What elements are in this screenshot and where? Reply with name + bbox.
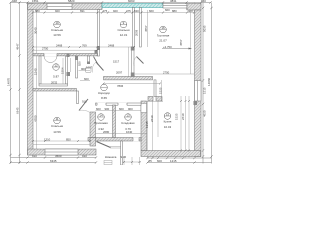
svg-text:13.56: 13.56 [53,130,61,134]
svg-text:85: 85 [149,159,153,163]
svg-text:2750: 2750 [163,70,170,74]
svg-text:5820: 5820 [68,0,75,3]
living room door leaf [137,57,144,64]
kitchen door jamb left [148,97,153,102]
svg-text:475: 475 [103,9,108,13]
svg-text:5.87: 5.87 [53,75,59,79]
svg-text:10: 10 [55,21,59,25]
svg-text:2097: 2097 [116,70,123,74]
right dimension line inner [202,3,204,164]
svg-text:4.92: 4.92 [98,127,104,131]
door arc bedroom1 [44,56,57,63]
top dimension line [11,2,211,4]
svg-text:1517: 1517 [113,60,120,64]
svg-text:5035: 5035 [203,25,207,32]
shaft wall A [133,8,135,48]
room label: entry room text [105,155,127,159]
svg-text:4700: 4700 [34,115,38,122]
bathroom door leaf [96,62,104,71]
svg-text:16: 16 [161,26,165,30]
svg-text:1215: 1215 [170,159,177,163]
svg-text:Коридор: Коридор [98,91,110,95]
bottom dimension line row1 left [11,157,97,159]
svg-text:910: 910 [82,100,87,104]
svg-text:3.76: 3.76 [125,127,131,131]
svg-text:21.07: 21.07 [159,39,167,43]
svg-text:Комната: Комната [105,155,117,159]
svg-text:Спальня: Спальня [51,124,63,128]
svg-text:Спальня: Спальня [51,28,63,32]
svg-text:948: 948 [12,0,17,3]
left dimension line outer [10,3,12,164]
svg-text:1007: 1007 [86,66,93,70]
svg-text:15: 15 [166,113,170,117]
svg-text:2610: 2610 [150,115,154,122]
left line ticks [9,88,11,90]
hall door opening [97,103,106,106]
jamb top [131,47,135,51]
small furniture marks below entry text [104,161,112,165]
room label: wc room12 [53,64,60,79]
corridor-kitchen thin wall [154,80,156,97]
svg-text:4557: 4557 [179,39,183,46]
entry dim ticks [123,161,125,163]
svg-text:900: 900 [105,107,110,111]
corner block SE of bedroom3 [90,138,96,147]
interior dim line ticks [32,46,34,48]
sink fixture [86,68,92,73]
jamb block on wall [97,46,100,50]
svg-text:6063: 6063 [128,0,135,3]
bottom dimension line right row2 [147,162,212,164]
balcony door opening in right wall [195,81,202,102]
bottom outer wall right part [141,151,201,157]
svg-text:6345: 6345 [50,159,57,163]
svg-text:10.43: 10.43 [164,125,172,129]
room12 right wall [66,56,68,84]
svg-text:475: 475 [126,9,131,13]
right outer wall [195,10,202,157]
svg-text:660: 660 [149,9,154,13]
svg-text:1310: 1310 [44,138,51,142]
svg-text:880: 880 [172,9,177,13]
jamb bottom [131,73,135,78]
room interior dim texts [42,8,170,142]
room label: bedroom2 [117,21,138,37]
svg-text:2032: 2032 [51,80,58,84]
svg-text:4557: 4557 [144,25,148,32]
svg-text:14060: 14060 [207,78,211,86]
svg-text:14870: 14870 [7,78,11,86]
svg-text:960: 960 [201,0,206,3]
room label: storage [122,114,135,132]
bottom ticks left [26,156,28,158]
entry door leaf [97,142,111,148]
svg-text:3831: 3831 [170,0,177,3]
svg-text:900: 900 [128,107,133,111]
svg-text:1551: 1551 [32,0,39,3]
svg-text:Прихожая: Прихожая [94,121,108,125]
svg-text:1540: 1540 [34,68,38,75]
kitchen dim ticks [180,100,182,102]
svg-text:691: 691 [80,9,85,13]
room12 left wall [39,56,41,84]
room label: corridor [98,84,110,100]
svg-text:2680: 2680 [103,130,110,134]
door gap in south wall [133,137,139,141]
entry room west wall [121,141,123,165]
south wall of hall/storage [88,138,141,142]
dimension texts: second row [35,9,193,13]
bottom dimension line row2 left [11,162,97,164]
right line ticks [202,7,204,9]
south wall of bedroom1 [33,54,98,56]
svg-text:11: 11 [55,117,58,121]
svg-text:910: 910 [32,154,37,158]
door jamb ticks [97,103,127,105]
bottom dim texts [32,154,177,163]
svg-text:Кухня: Кухня [164,120,172,124]
top-right corner pier [187,4,201,11]
living room window top right [163,4,187,9]
room label: bedroom1 [51,21,63,37]
jamb below opening [194,101,198,105]
svg-text:1525: 1525 [175,113,179,120]
bottom dimension line right row1 [147,157,212,159]
jamb blocks bathroom [67,54,70,58]
svg-text:+2.750: +2.750 [163,45,172,49]
svg-text:2468: 2468 [108,43,115,47]
svg-text:2750: 2750 [42,47,49,51]
svg-text:12: 12 [54,64,58,68]
tick marks [9,1,212,163]
svg-text:3040: 3040 [34,27,38,34]
svg-text:920: 920 [77,61,81,66]
room12 bottom wall [39,84,68,86]
svg-text:12.31: 12.31 [120,33,128,37]
corridor-kitchen dim line [147,100,163,102]
rotated side texts [7,25,211,128]
svg-text:600: 600 [96,107,101,111]
elevation leader living room [162,48,192,50]
bottom outer wall left part [28,149,97,155]
svg-text:600: 600 [157,159,162,163]
svg-text:420: 420 [188,9,193,13]
svg-text:1515: 1515 [203,87,207,94]
svg-text:14: 14 [99,114,103,118]
svg-text:4620: 4620 [203,110,207,117]
svg-text:Гостиная: Гостиная [157,34,170,38]
svg-text:630: 630 [134,9,139,13]
wc partition stub [88,56,90,63]
svg-text:680: 680 [35,9,40,13]
svg-text:3600: 3600 [55,154,62,158]
window in bottom wall [45,149,78,155]
extension lines [28,3,202,166]
room label: kitchen [164,113,172,130]
bathroom north door leaf [94,57,99,65]
room label: living room [157,26,170,43]
shaft wall B [140,8,142,48]
left outer wall [28,4,34,156]
svg-text:769: 769 [82,43,87,47]
room label: hall [94,114,108,132]
storage door opening [118,103,127,106]
svg-text:13: 13 [126,114,130,118]
svg-text:8.65: 8.65 [101,96,107,100]
kitchen west wall [141,101,147,151]
svg-text:Кладовая: Кладовая [122,121,135,125]
door opening bedroom1 [44,53,57,56]
door gap in kitchen west wall [141,104,147,113]
bottom ticks right [146,157,148,159]
window in top wall left [47,4,72,10]
svg-text:600: 600 [119,107,124,111]
corridor west wall [77,91,79,104]
hall/storage north wall [96,103,142,105]
wall between hall and storage [113,105,116,138]
bathroom east wall [76,56,78,78]
svg-text:6345: 6345 [16,107,20,114]
entry threshold lines [110,146,121,148]
room label: bedroom3 bottom-left [51,117,63,134]
svg-text:4947: 4947 [16,43,20,50]
bathroom interior dim [79,70,91,72]
svg-text:2610: 2610 [181,113,185,120]
svg-text:13.56: 13.56 [53,33,61,37]
svg-text:2468: 2468 [56,43,63,47]
svg-text:Спальня: Спальня [117,28,129,32]
door leaf bottom-left bedroom [79,99,88,111]
svg-text:9.30: 9.30 [121,155,127,159]
svg-text:7806: 7806 [117,84,124,88]
svg-text:1525: 1525 [158,87,162,94]
corridor north wall hatched [104,77,153,80]
wall bedroom2/living room lower [132,47,135,77]
second row ticks [32,11,34,13]
right dimension line outer [211,3,213,164]
svg-text:910: 910 [82,154,87,158]
svg-text:2059: 2059 [134,29,138,36]
interior dimension lines [33,10,195,163]
svg-text:660: 660 [165,8,170,12]
left dimension line inner [19,3,21,164]
svg-text:920: 920 [55,9,60,13]
svg-text:600: 600 [84,77,89,81]
svg-text:850: 850 [66,138,71,142]
svg-text:1215: 1215 [145,121,149,128]
svg-text:920: 920 [113,9,118,13]
wall bedroom1/bedroom2 [98,10,100,57]
top outer wall cyan insulated part [102,4,163,8]
east wall bottom-left bedroom [90,112,96,141]
dimension texts: top row [12,0,206,3]
kitchen door jamb right [156,97,162,102]
svg-text:1554: 1554 [60,67,64,74]
north wall bottom-left bedroom [33,89,77,92]
top outer wall left part [28,4,103,10]
